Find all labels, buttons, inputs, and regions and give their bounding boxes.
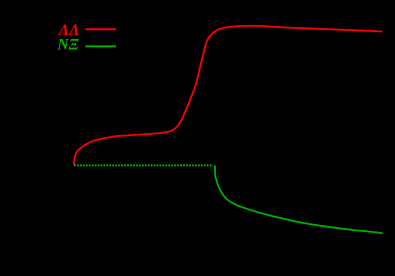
green curve NΞ phase shift above threshold bbox=[215, 166, 382, 233]
legend sample line NΞ bbox=[86, 45, 117, 47]
svg-text:NΞ: NΞ bbox=[56, 37, 79, 54]
legend sample line ΛΛ bbox=[86, 28, 117, 30]
red curve ΛΛ phase shift bbox=[74, 26, 382, 165]
green dotted flat segment NΞ below threshold bbox=[74, 164, 213, 166]
